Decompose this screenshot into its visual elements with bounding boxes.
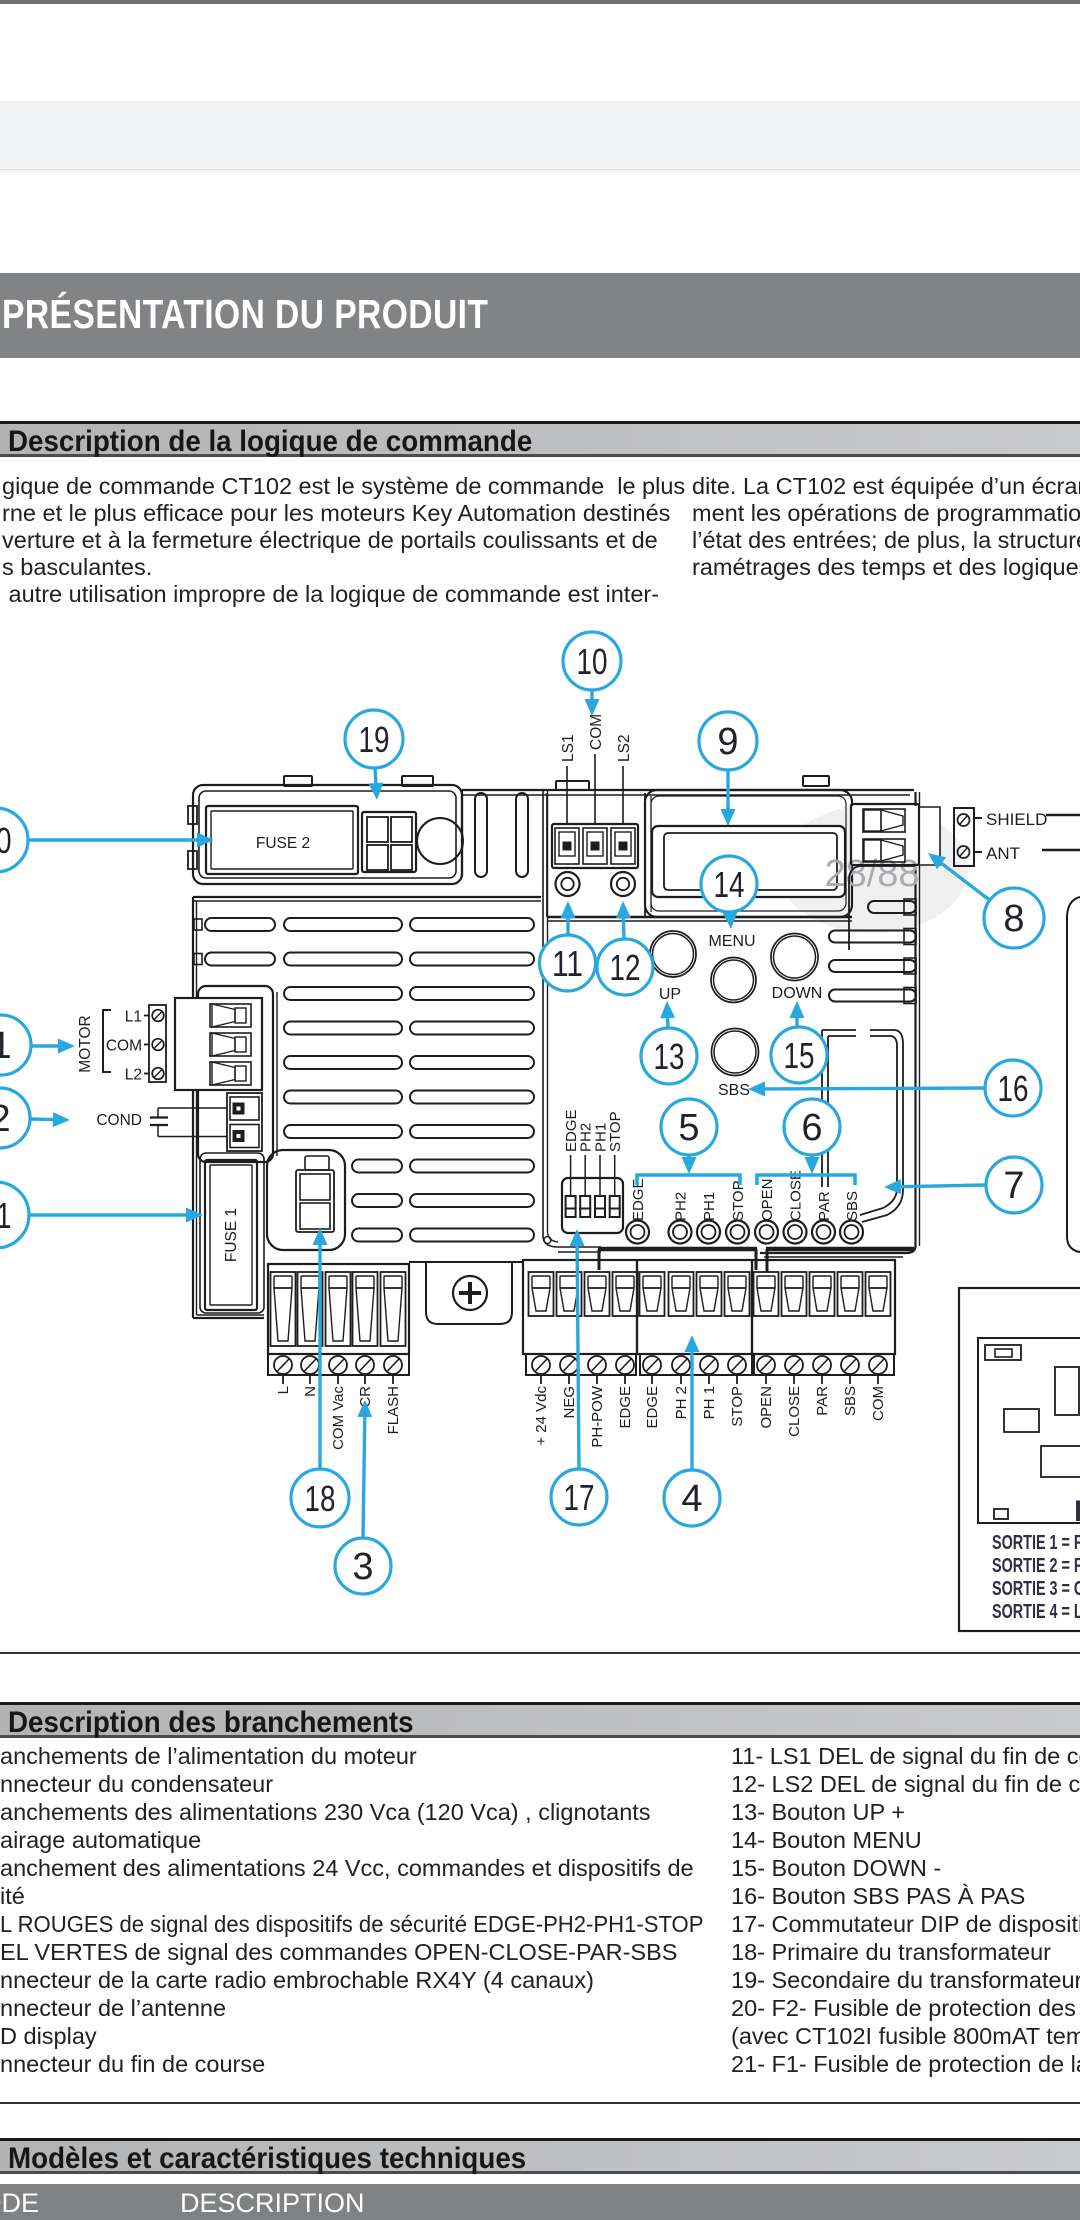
- callout 11 leader: [561, 901, 576, 936]
- svg-text:FUSE 2: FUSE 2: [256, 835, 310, 852]
- svg-text:2: 2: [0, 1098, 11, 1140]
- svg-text:PH-POW: PH-POW: [589, 1385, 606, 1448]
- svg-text:6: 6: [801, 1107, 822, 1149]
- callout 3 leader: [357, 1400, 372, 1538]
- mounting screw tray: [426, 1262, 512, 1324]
- section separator wires: [543, 790, 601, 1252]
- svg-text:COM Vac: COM Vac: [330, 1386, 347, 1450]
- callout 6 bracket: [757, 1175, 855, 1185]
- callout 18: [291, 1469, 349, 1527]
- svg-text:COND: COND: [96, 1112, 142, 1129]
- right legend box edge: [1067, 897, 1080, 1252]
- callout 13: [641, 1028, 697, 1084]
- LS module box: [547, 793, 852, 921]
- callout 2: [0, 1088, 30, 1148]
- transformer primary connector (18 target): [267, 1150, 345, 1250]
- svg-text:+ 24 Vdc: + 24 Vdc: [533, 1386, 550, 1446]
- svg-text:STOP: STOP: [730, 1180, 747, 1221]
- svg-text:18: 18: [305, 1478, 336, 1519]
- svg-text:L1: L1: [125, 1009, 142, 1026]
- svg-text:19: 19: [359, 719, 390, 760]
- svg-text:FLASH: FLASH: [385, 1386, 402, 1434]
- svg-text:L2: L2: [125, 1067, 142, 1084]
- svg-text:PH 1: PH 1: [701, 1386, 718, 1419]
- svg-text:CLOSE: CLOSE: [788, 1170, 805, 1221]
- callout 15 leader: [790, 1001, 805, 1027]
- svg-text:PH1: PH1: [701, 1192, 718, 1221]
- svg-text:SORTIE 1 = FLAS: SORTIE 1 = FLAS: [992, 1531, 1080, 1554]
- callout 5: [661, 1099, 717, 1155]
- callout 20: [0, 808, 28, 872]
- callout 9 leader: [721, 770, 736, 826]
- svg-text:SBS: SBS: [844, 1191, 861, 1221]
- svg-text:EDGE: EDGE: [617, 1386, 634, 1429]
- antenna terminal SHIELD/ANT: [954, 808, 1080, 866]
- power section outline: [188, 785, 462, 884]
- right ventilation slots: [829, 899, 916, 1004]
- svg-text:1: 1: [0, 1025, 12, 1067]
- signal LEDs row: [626, 1170, 863, 1243]
- limit-switch connector LS1/COM/LS2 (10 target): [552, 714, 638, 868]
- svg-text:STOP: STOP: [607, 1111, 624, 1152]
- svg-text:7: 7: [1003, 1165, 1024, 1207]
- callout 17 leader: [570, 1229, 585, 1469]
- callout 16: [985, 1060, 1041, 1116]
- watermark page indicator 28/88: [824, 806, 940, 895]
- svg-text:20: 20: [0, 820, 12, 861]
- main board right section outline: [462, 790, 920, 1257]
- callout 21: [0, 1182, 29, 1248]
- svg-text:SHIELD: SHIELD: [986, 810, 1047, 829]
- svg-text:PAR: PAR: [816, 1191, 833, 1221]
- button SBS (16 target): [712, 1029, 759, 1100]
- callout 19: [345, 710, 403, 768]
- svg-text:12: 12: [610, 947, 641, 988]
- callout 8 leader: [928, 853, 992, 902]
- DIP switch block (17 target): [562, 1109, 624, 1233]
- callout 11: [540, 935, 596, 991]
- svg-text:17: 17: [564, 1477, 595, 1518]
- callout 3: [335, 1538, 391, 1594]
- svg-text:EDGE: EDGE: [644, 1386, 661, 1429]
- svg-text:16: 16: [998, 1068, 1029, 1109]
- LED LS1 (11 target): [556, 872, 580, 896]
- callout 14 leader: [723, 912, 738, 929]
- svg-text:21: 21: [0, 1195, 12, 1236]
- svg-text:PH 2: PH 2: [673, 1386, 690, 1419]
- svg-text:SORTIE 2 = FCA: SORTIE 2 = FCA: [992, 1554, 1080, 1577]
- svg-text:5: 5: [678, 1107, 699, 1149]
- button MENU (14 target): [708, 933, 756, 1003]
- svg-text:COM: COM: [870, 1386, 887, 1421]
- inset legend panel SORTIE: [959, 1288, 1080, 1631]
- svg-text:STOP: STOP: [729, 1386, 746, 1427]
- svg-text:P: P: [1074, 1495, 1080, 1528]
- callout 20 leader: [24, 833, 214, 848]
- callout 4 leader: [685, 1335, 700, 1470]
- callout 5 bracket: [637, 1175, 740, 1185]
- left section outline: [193, 897, 541, 1318]
- svg-text:FUSE 1: FUSE 1: [223, 1208, 240, 1262]
- vertical slots near transformer: [475, 793, 528, 877]
- svg-text:NEG: NEG: [561, 1386, 578, 1419]
- board top edge tabs: [284, 776, 829, 790]
- terminal block commands OPEN,CLOSE,PAR,SBS,COM: [752, 1260, 895, 1437]
- callout 12 leader: [616, 901, 631, 940]
- svg-text:3: 3: [352, 1546, 373, 1588]
- terminal block safety EDGE,PH2,PH1,STOP (4 target): [637, 1260, 752, 1429]
- relay bracket (7 target): [822, 1030, 903, 1222]
- svg-text:9: 9: [717, 721, 738, 763]
- svg-text:ANT: ANT: [986, 844, 1020, 863]
- callout 8: [984, 888, 1044, 948]
- svg-text:13: 13: [654, 1036, 685, 1077]
- callout 4: [664, 1470, 720, 1526]
- callout 21 leader: [26, 1208, 203, 1223]
- LED LS2 (12 target): [611, 872, 635, 896]
- svg-text:11: 11: [552, 943, 583, 984]
- svg-text:COM: COM: [106, 1038, 142, 1055]
- terminal block 24V +24Vdc,NEG,PH-POW,EDGE (17/4 area): [523, 1260, 638, 1448]
- board bottom edge segments: [409, 1261, 523, 1263]
- LCD display (9 target): [652, 826, 845, 897]
- terminal band top edge: [598, 1249, 914, 1272]
- callout 14: [701, 856, 757, 912]
- callout 7: [986, 1157, 1042, 1213]
- radio card connector (8 target): [849, 804, 940, 950]
- callout 12: [597, 939, 653, 995]
- svg-text:MOTOR: MOTOR: [77, 1015, 94, 1072]
- svg-text:LS2: LS2: [616, 734, 633, 762]
- callout 7 leader: [884, 1179, 986, 1194]
- capacitor connector COND (2 target): [96, 1093, 262, 1151]
- callout 9: [699, 712, 757, 770]
- callout 1 leader: [32, 1039, 75, 1054]
- svg-text:SBS: SBS: [842, 1386, 859, 1416]
- ventilation slots: [194, 918, 534, 1242]
- svg-text:N: N: [302, 1386, 319, 1397]
- transformer secondary connector (19 target): [362, 812, 463, 872]
- svg-text:14: 14: [714, 864, 745, 905]
- motor terminal block (1 target): [77, 986, 277, 1162]
- watermark halo: [778, 805, 968, 933]
- callout 13 leader: [660, 1001, 675, 1028]
- svg-text:SORTIE 4 = LUM: SORTIE 4 = LUM: [992, 1600, 1080, 1623]
- svg-text:DOWN: DOWN: [772, 985, 823, 1002]
- callout 10: [563, 632, 621, 690]
- svg-text:L: L: [275, 1386, 292, 1394]
- callout 17: [551, 1469, 607, 1525]
- svg-text:PH2: PH2: [673, 1192, 690, 1221]
- display module outline: [645, 790, 852, 917]
- callout 15: [771, 1027, 827, 1083]
- callout 6 leader: [805, 1155, 820, 1174]
- svg-text:SBS: SBS: [718, 1082, 750, 1099]
- svg-text:4: 4: [681, 1478, 702, 1520]
- svg-text:SORTIE 3 = COU: SORTIE 3 = COU: [992, 1577, 1080, 1600]
- callout 16 leader: [748, 1081, 986, 1096]
- svg-text:CLOSE: CLOSE: [786, 1386, 803, 1437]
- callout 10 leader: [585, 690, 600, 716]
- callout 6: [784, 1099, 840, 1155]
- svg-text:UP: UP: [659, 986, 681, 1003]
- button UP (13 target): [650, 931, 696, 1003]
- svg-text:LS1: LS1: [560, 734, 577, 762]
- svg-text:15: 15: [784, 1035, 815, 1076]
- svg-text:MENU: MENU: [708, 933, 755, 950]
- svg-text:OPEN: OPEN: [758, 1386, 775, 1429]
- button DOWN (15 target): [771, 934, 822, 1003]
- callout 5 leader: [682, 1155, 697, 1174]
- fuse F1 (21 target): [200, 1153, 264, 1313]
- callout 1: [0, 1015, 31, 1075]
- svg-text:8: 8: [1003, 898, 1024, 940]
- svg-text:COM: COM: [588, 714, 605, 750]
- svg-text:10: 10: [577, 641, 608, 682]
- callout 2 leader: [30, 1112, 70, 1127]
- svg-text:PAR: PAR: [814, 1386, 831, 1416]
- terminal block 230V L,N,COM Vac,CR,FLASH (3 target): [268, 1264, 409, 1450]
- svg-text:OPEN: OPEN: [759, 1178, 776, 1221]
- fuse F2: [206, 806, 358, 874]
- callout 19 leader: [369, 768, 384, 800]
- callout 18 leader: [313, 1228, 328, 1469]
